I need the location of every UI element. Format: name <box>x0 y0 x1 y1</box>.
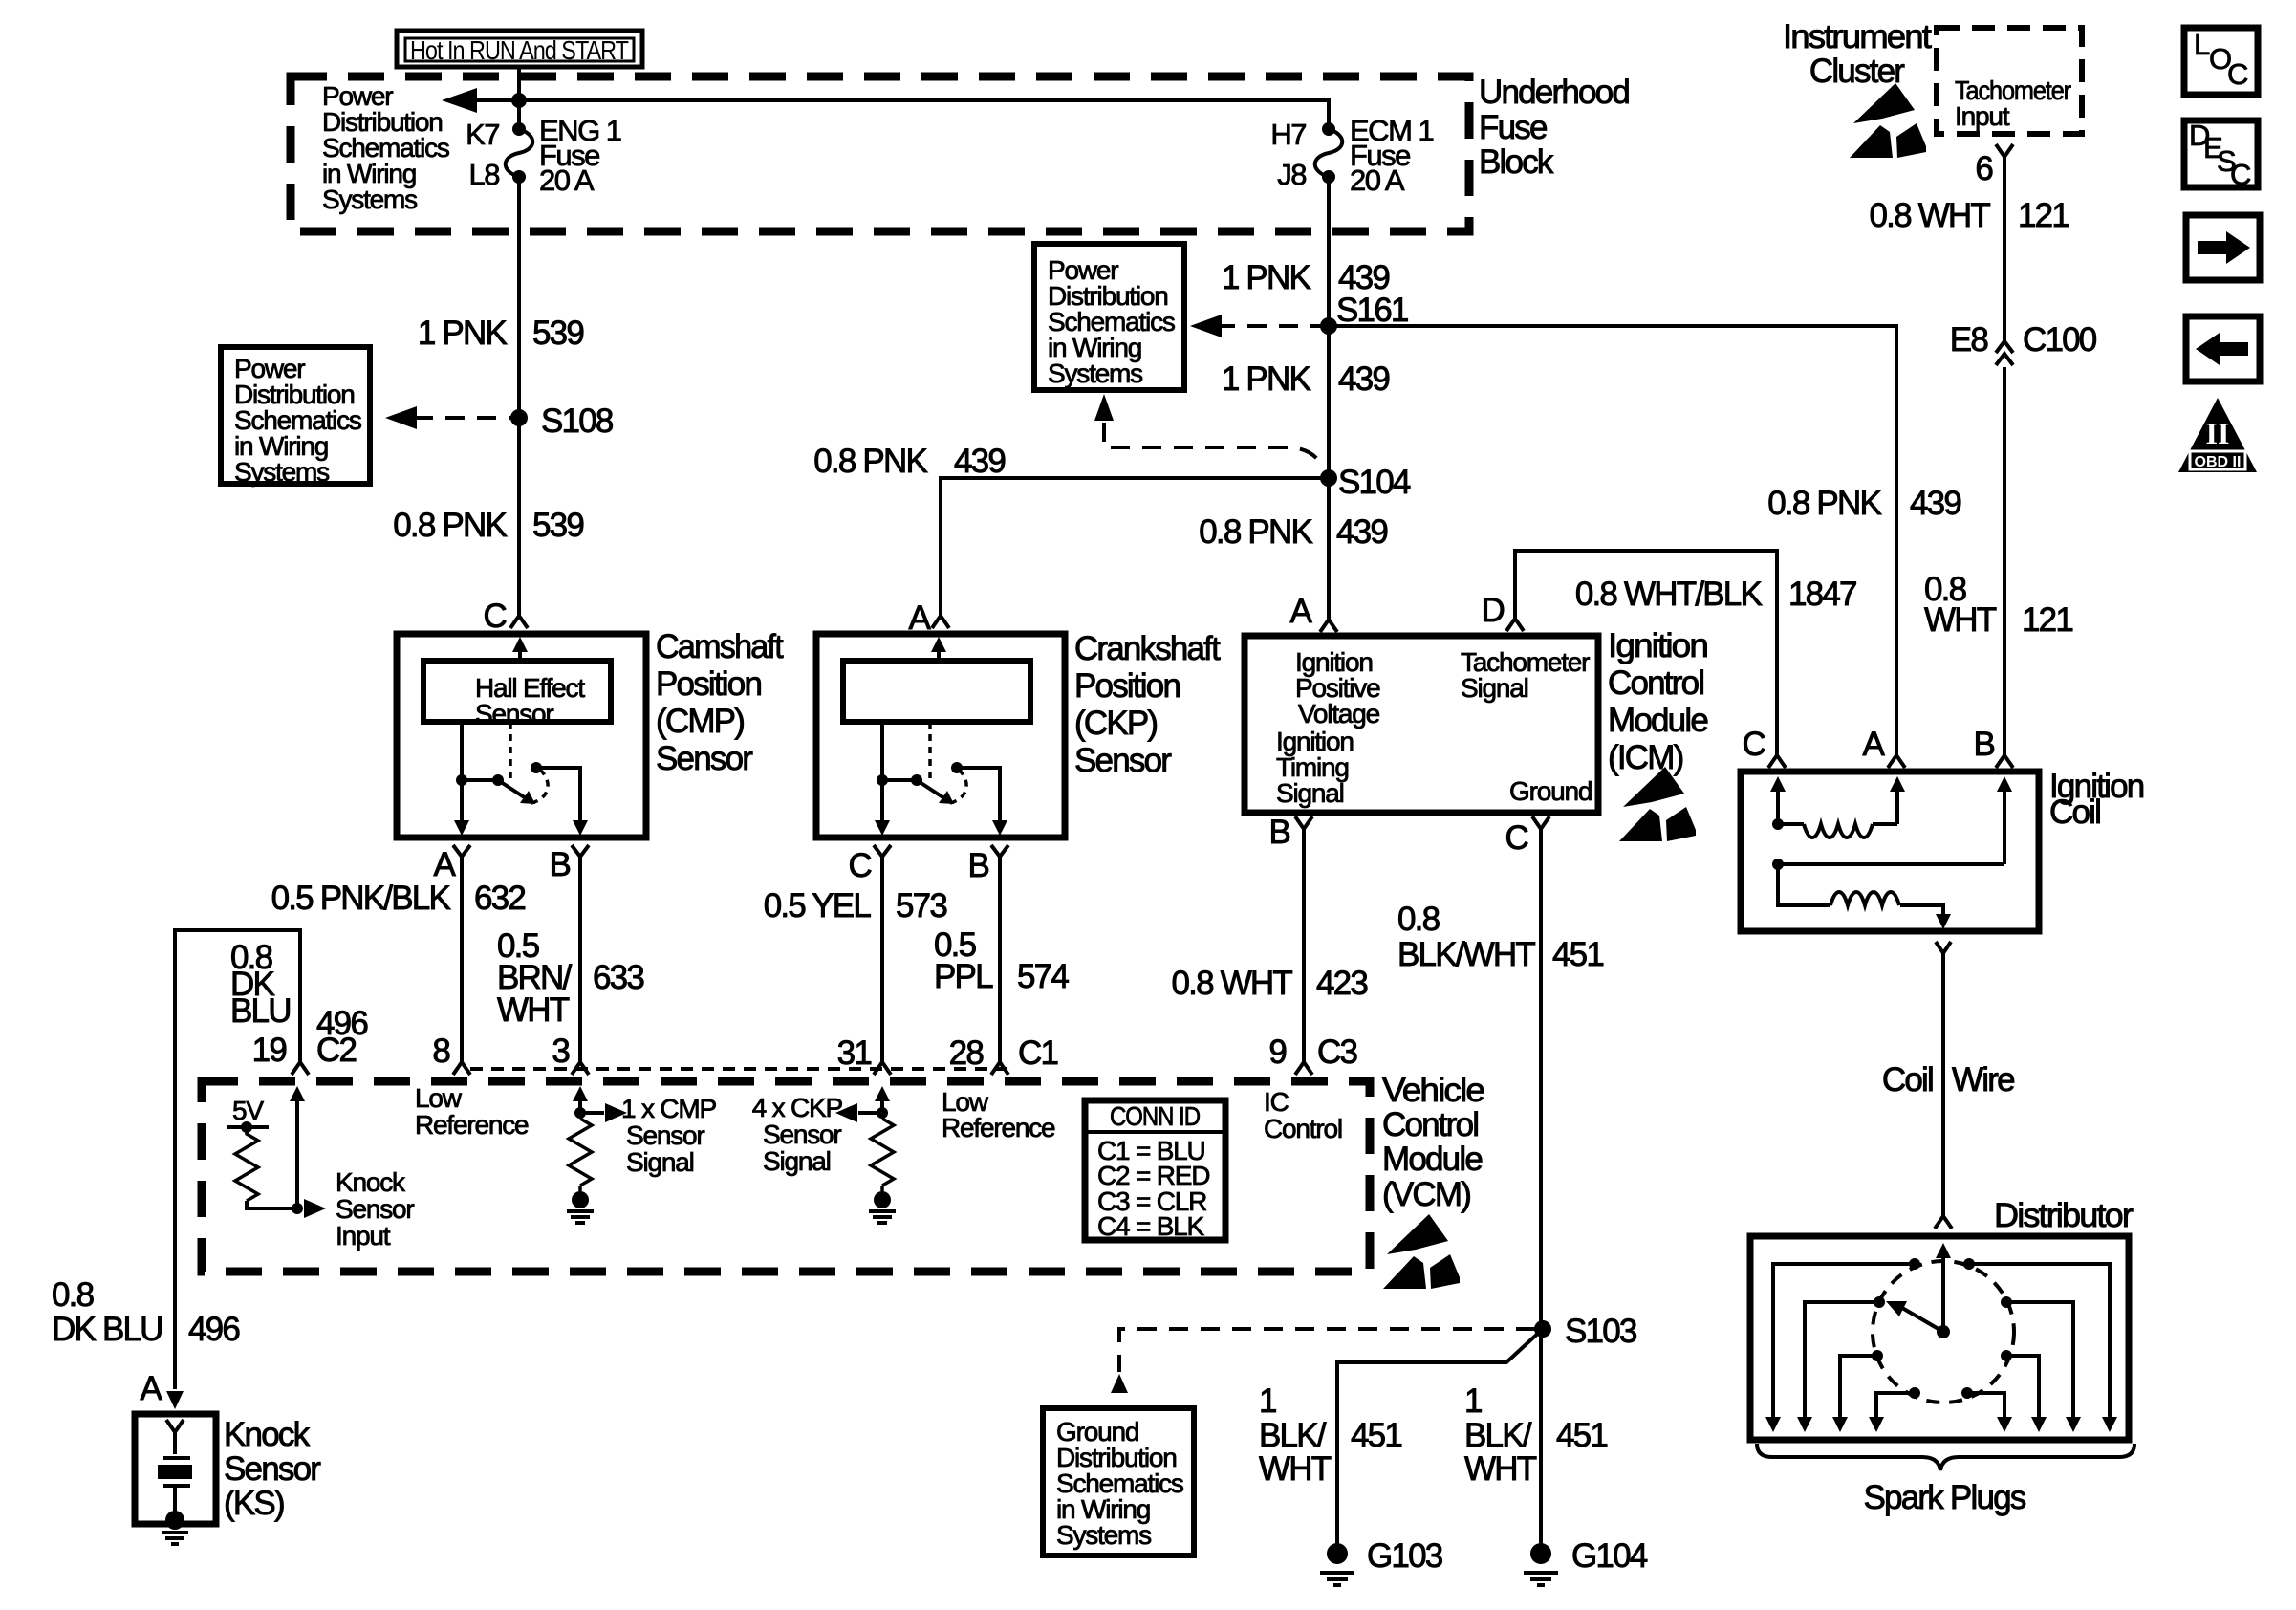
svg-text:539: 539 <box>532 315 583 352</box>
svg-text:(CMP): (CMP) <box>656 703 744 740</box>
connector chevron ICM pin C <box>1532 816 1549 829</box>
symbol box DESC <box>2184 119 2258 191</box>
ground symbol knock sensor <box>162 1533 188 1544</box>
svg-text:0.5 PNK/BLK: 0.5 PNK/BLK <box>271 880 451 917</box>
dashed wire from S103 to ground distribution note <box>1119 1329 1535 1372</box>
svg-text:K7: K7 <box>466 118 499 151</box>
pin 8 <box>432 1033 470 1075</box>
symbol box LOC <box>2184 28 2258 95</box>
label Ignition Control Module (ICM) <box>1608 627 1707 776</box>
svg-text:J8: J8 <box>1277 158 1306 191</box>
svg-text:Coil: Coil <box>2049 794 2100 831</box>
svg-text:Underhood: Underhood <box>1479 74 1629 111</box>
svg-text:Coil: Coil <box>1882 1061 1933 1099</box>
svg-text:H7: H7 <box>1270 118 1306 151</box>
svg-text:A: A <box>433 846 456 883</box>
svg-text:573: 573 <box>896 887 946 925</box>
VCM 5V knock input circuit <box>227 1086 326 1218</box>
label 1 x CMP Sensor Signal <box>621 1094 716 1177</box>
wire ICM pin B down to VCM pin 9 <box>1302 829 1306 1061</box>
splice S108 <box>510 409 528 426</box>
label 0.8 PNK 439 (coil A wire) <box>1767 485 1960 522</box>
svg-text:Low: Low <box>415 1083 463 1113</box>
Ignition Coil box <box>1741 772 2039 931</box>
svg-text:Reference: Reference <box>942 1113 1055 1142</box>
label ECM 1 Fuse 20 A <box>1350 114 1434 197</box>
connector chevron CKP pin B <box>991 845 1008 857</box>
arrow up from Hall box to pin C (inside CMP) <box>518 648 522 661</box>
label 1 BLK/WHT 451 (G104) <box>1464 1382 1607 1488</box>
svg-text:20 A: 20 A <box>539 163 595 197</box>
splice S103 <box>1534 1320 1551 1338</box>
spark plug wires with arrows <box>1765 1264 2117 1432</box>
svg-text:Instrument: Instrument <box>1783 18 1932 55</box>
svg-text:C: C <box>2227 57 2248 91</box>
label 0.5 PNK/BLK 632 <box>271 880 526 917</box>
svg-text:C2: C2 <box>316 1032 356 1069</box>
svg-text:C4 = BLK: C4 = BLK <box>1097 1211 1205 1241</box>
wire C100 down to ignition coil pin B <box>2003 367 2006 755</box>
svg-text:S108: S108 <box>541 402 613 440</box>
CKP internal switch <box>875 722 1007 836</box>
junction dot at ENG1 feed <box>511 93 527 108</box>
svg-text:Position: Position <box>656 665 761 703</box>
connector chevron ICM pin D <box>1506 619 1524 631</box>
svg-text:WHT: WHT <box>497 991 570 1029</box>
svg-text:Sensor: Sensor <box>475 699 553 729</box>
svg-text:Knock: Knock <box>336 1167 406 1197</box>
svg-text:1847: 1847 <box>1788 576 1856 613</box>
svg-text:C3: C3 <box>1317 1033 1356 1071</box>
svg-text:Signal: Signal <box>763 1146 831 1176</box>
ground G103 <box>1320 1537 1442 1585</box>
knock sensor wire up-over to VCM pin 19 <box>175 930 300 1389</box>
svg-text:A: A <box>1862 726 1885 763</box>
connector chevron CMP pin A <box>453 845 470 857</box>
label 0.5 BRN/WHT 633 <box>497 927 643 1029</box>
label Coil Wire <box>1882 1061 2014 1099</box>
svg-text:CONN ID: CONN ID <box>1110 1101 1200 1131</box>
svg-text:G104: G104 <box>1571 1537 1648 1575</box>
svg-text:451: 451 <box>1351 1417 1401 1454</box>
svg-text:Sensor: Sensor <box>1074 742 1172 779</box>
label 0.8 PNK 439 (below S104) <box>1199 513 1387 551</box>
svg-text:C: C <box>1743 726 1765 763</box>
splice S104 <box>1320 469 1337 487</box>
spark plugs brace <box>1757 1444 2134 1470</box>
svg-text:Reference: Reference <box>415 1110 529 1140</box>
svg-text:BLU: BLU <box>230 992 291 1030</box>
svg-text:Input: Input <box>336 1221 391 1251</box>
label 1 PNK 539 <box>418 315 583 352</box>
Underhood Fuse Block dashed box <box>291 76 1469 231</box>
arrow up from inner box to pin A (inside CKP) <box>937 648 941 661</box>
symbol box arrow left <box>2186 316 2260 381</box>
svg-text:C: C <box>2230 158 2251 191</box>
ICM pin names <box>1276 647 1592 808</box>
distributor cap terminals (dots) <box>1872 1258 2012 1399</box>
Ignition Control Module (ICM) box <box>1245 636 1598 813</box>
svg-text:(ICM): (ICM) <box>1608 739 1683 776</box>
VCM 1xCMP sensor signal circuit <box>567 1086 627 1223</box>
pin 9 C3 <box>1268 1033 1356 1075</box>
svg-text:19: 19 <box>252 1032 287 1069</box>
label 0.8 WHT 423 <box>1172 965 1368 1002</box>
svg-text:(KS): (KS) <box>224 1485 284 1522</box>
svg-text:PPL: PPL <box>934 958 993 995</box>
connector chevron CKP pin C <box>874 845 891 857</box>
Crankshaft Position (CKP) Sensor box <box>816 634 1065 838</box>
label Underhood Fuse Block <box>1479 74 1629 181</box>
wire ICM pin D up and over to ignition coil pin C <box>1515 551 1777 755</box>
svg-text:Camshaft: Camshaft <box>656 628 784 665</box>
svg-text:0.8 WHT/BLK: 0.8 WHT/BLK <box>1575 576 1763 613</box>
note box Ground Distribution Schematics <box>1043 1408 1194 1556</box>
svg-text:E8: E8 <box>1950 321 1988 359</box>
svg-text:Sensor: Sensor <box>656 740 753 777</box>
svg-text:Sensor: Sensor <box>224 1450 321 1488</box>
thin dashed connector line C1 <box>470 1067 1007 1071</box>
CONN ID table <box>1085 1100 1225 1241</box>
note box Power Distribution Schematics (left) <box>221 347 370 487</box>
pin 3 <box>552 1033 589 1075</box>
connector chevron tachometer pin 6 <box>1996 144 2013 157</box>
label 0.8 PNK 539 <box>393 507 583 544</box>
svg-text:633: 633 <box>593 959 643 996</box>
svg-text:451: 451 <box>1552 936 1603 973</box>
svg-text:20 A: 20 A <box>1350 163 1405 197</box>
ESD symbol instrument cluster <box>1850 83 1926 158</box>
svg-text:Systems: Systems <box>322 185 417 214</box>
distributor center shaft arrow up <box>1936 1243 1951 1338</box>
label 0.8 PNK 439 (left branch) <box>813 443 1005 480</box>
svg-text:496: 496 <box>188 1311 239 1348</box>
svg-text:0.8 PNK: 0.8 PNK <box>813 443 927 480</box>
svg-text:Sensor: Sensor <box>626 1120 704 1150</box>
svg-text:0.8: 0.8 <box>52 1276 94 1314</box>
coil secondary winding <box>1772 859 2004 929</box>
svg-text:Ground: Ground <box>1509 776 1592 806</box>
svg-text:C: C <box>484 598 507 635</box>
label Ignition Coil <box>2049 768 2144 831</box>
wire S161 branch right to ignition coil pin A <box>1329 326 1896 755</box>
svg-text:31: 31 <box>837 1034 872 1072</box>
label 0.8 BLK/WHT 451 <box>1397 901 1603 973</box>
svg-text:L: L <box>2194 28 2210 61</box>
label ENG 1 Fuse 20 A <box>539 114 621 197</box>
svg-text:Signal: Signal <box>626 1147 694 1177</box>
pin 28 <box>949 1034 1008 1075</box>
fuse ENG 1 20 A <box>506 122 533 184</box>
svg-text:Sensor: Sensor <box>336 1194 414 1224</box>
wire tachometer input down to C100 <box>2003 157 2006 340</box>
svg-text:1 PNK: 1 PNK <box>1222 360 1311 398</box>
svg-text:Voltage: Voltage <box>1298 699 1380 729</box>
svg-text:121: 121 <box>2018 197 2069 234</box>
label 0.5 PPL 574 <box>934 926 1069 995</box>
svg-text:9: 9 <box>1268 1033 1286 1071</box>
svg-text:Ignition: Ignition <box>1608 627 1707 664</box>
svg-text:B: B <box>1268 814 1289 851</box>
power source box "Hot In RUN And START" <box>397 31 642 67</box>
svg-text:BLK/: BLK/ <box>1464 1417 1532 1454</box>
VCM 4xCKP sensor signal circuit <box>835 1086 896 1223</box>
svg-text:Control: Control <box>1382 1106 1478 1143</box>
svg-text:Systems: Systems <box>1048 359 1142 388</box>
connector chevron coil pin A <box>1888 755 1905 768</box>
svg-text:632: 632 <box>474 880 525 917</box>
svg-text:Hot In RUN And START: Hot In RUN And START <box>410 35 629 65</box>
svg-text:Fuse: Fuse <box>1479 109 1547 146</box>
label 4 x CKP Sensor Signal <box>752 1093 843 1176</box>
svg-text:1: 1 <box>1464 1382 1482 1420</box>
distributor rotor circle (dashed) <box>1873 1261 2014 1403</box>
svg-text:Wire: Wire <box>1952 1061 2014 1099</box>
svg-text:574: 574 <box>1017 958 1069 995</box>
label 1 BLK/WHT 451 (G103) <box>1259 1382 1401 1488</box>
svg-text:451: 451 <box>1556 1417 1607 1454</box>
svg-text:Signal: Signal <box>1276 778 1344 808</box>
svg-text:Module: Module <box>1382 1141 1482 1178</box>
label Knock Sensor (KS) <box>224 1416 321 1522</box>
svg-text:Systems: Systems <box>234 457 329 487</box>
svg-text:Sensor: Sensor <box>763 1120 841 1149</box>
svg-text:Position: Position <box>1074 667 1180 705</box>
label 0.8 WHT/BLK 1847 <box>1575 576 1856 613</box>
svg-text:C1: C1 <box>1018 1034 1057 1072</box>
svg-text:423: 423 <box>1316 965 1367 1002</box>
svg-text:0.8 WHT: 0.8 WHT <box>1870 197 1991 234</box>
svg-text:BLK/WHT: BLK/WHT <box>1397 936 1535 973</box>
svg-text:B: B <box>967 847 988 884</box>
svg-text:1 PNK: 1 PNK <box>418 315 508 352</box>
label Low Reference (left) <box>415 1083 529 1140</box>
svg-text:C: C <box>849 847 872 884</box>
svg-text:28: 28 <box>949 1034 984 1072</box>
svg-text:121: 121 <box>2022 601 2072 639</box>
svg-text:0.8 PNK: 0.8 PNK <box>393 507 507 544</box>
svg-text:1: 1 <box>1259 1382 1276 1420</box>
svg-text:D: D <box>1482 592 1505 629</box>
svg-text:Module: Module <box>1608 702 1707 739</box>
note box Power Distribution Schematics (middle) <box>1034 244 1184 390</box>
label 1 PNK 439 (below S161) <box>1222 360 1389 398</box>
label Low Reference (right) <box>942 1087 1055 1142</box>
dashed arrow up into middle note box from S104 <box>1094 394 1114 421</box>
svg-text:Cluster: Cluster <box>1809 53 1905 90</box>
connector chevron CMP pin B <box>572 845 589 857</box>
svg-text:3: 3 <box>552 1033 569 1070</box>
svg-text:Systems: Systems <box>1056 1520 1151 1550</box>
svg-text:C: C <box>1505 819 1528 857</box>
CKP inner element box <box>843 661 1030 722</box>
label Camshaft Position (CMP) Sensor <box>656 628 784 777</box>
svg-text:Distributor: Distributor <box>1994 1197 2134 1234</box>
symbol OBD II triangle <box>2178 398 2257 472</box>
arrow left (power distribution off-page) <box>442 88 477 113</box>
svg-text:6: 6 <box>1975 150 1992 187</box>
ESD symbol ICM <box>1619 767 1696 841</box>
connector C100 pin E8 (double chevron) <box>1950 321 2097 365</box>
connector chevron CMP pin C <box>510 616 528 628</box>
svg-text:WHT: WHT <box>1259 1450 1332 1488</box>
Distributor box <box>1750 1236 2129 1440</box>
svg-text:Knock: Knock <box>224 1416 311 1453</box>
svg-text:0.5 YEL: 0.5 YEL <box>764 887 872 925</box>
wire ENG1 fuse down to CMP sensor pin C <box>517 177 521 615</box>
distributor rotor arm arrow <box>1886 1301 1943 1332</box>
svg-text:0.8 WHT: 0.8 WHT <box>1172 965 1293 1002</box>
svg-text:539: 539 <box>532 507 583 544</box>
label 0.8 DK BLU 496 (vertical stack) <box>230 939 367 1042</box>
svg-text:0.8 PNK: 0.8 PNK <box>1199 513 1312 551</box>
svg-text:439: 439 <box>954 443 1005 480</box>
connector chevron ICM pin B <box>1295 816 1312 829</box>
CMP internal switch <box>454 722 588 836</box>
label Crankshaft Position (CKP) Sensor <box>1074 630 1221 779</box>
svg-text:DK BLU: DK BLU <box>52 1311 162 1348</box>
svg-text:1 PNK: 1 PNK <box>1222 259 1311 296</box>
svg-text:0.8 PNK: 0.8 PNK <box>1767 485 1881 522</box>
label 0.8 DK BLU 496 (lower) <box>52 1276 239 1348</box>
label 0.5 YEL 573 <box>764 887 947 925</box>
dashed arrow from S108 to power distribution note <box>414 416 511 420</box>
label 0.8 WHT 121 (upper) <box>1870 197 2069 234</box>
svg-text:(CKP): (CKP) <box>1074 705 1157 742</box>
connector chevron coil pin B <box>1996 755 2013 768</box>
label Knock Sensor Input <box>336 1167 414 1251</box>
svg-text:WHT: WHT <box>1464 1450 1537 1488</box>
label Instrument Cluster <box>1783 18 1932 90</box>
wire ECM1 fuse down through S161 and S104 to ICM pin A <box>1327 177 1331 620</box>
svg-text:S104: S104 <box>1338 464 1411 501</box>
svg-text:Control: Control <box>1608 664 1703 702</box>
svg-text:Control: Control <box>1264 1114 1342 1143</box>
label 0.8 WHT 121 (lower) <box>1924 571 2072 639</box>
svg-text:4 x CKP: 4 x CKP <box>752 1093 843 1122</box>
Vehicle Control Module (VCM) dashed box <box>202 1081 1370 1272</box>
connector chevron coil pin C <box>1768 755 1786 768</box>
Tachometer Input dashed box <box>1937 28 2082 134</box>
svg-text:L8: L8 <box>469 158 500 191</box>
connector chevron CKP pin A <box>932 616 949 628</box>
label Vehicle Control Module (VCM) <box>1382 1072 1484 1213</box>
knock sensor element <box>158 1420 192 1530</box>
svg-text:439: 439 <box>1336 513 1387 551</box>
svg-text:1 x CMP: 1 x CMP <box>621 1094 716 1123</box>
svg-text:S103: S103 <box>1565 1313 1636 1350</box>
svg-text:B: B <box>549 846 570 883</box>
note Power Distribution Schematics in Wiring Systems (in fuse block) <box>322 81 449 214</box>
svg-text:WHT: WHT <box>1924 601 1997 639</box>
svg-text:439: 439 <box>1338 360 1389 398</box>
svg-text:A: A <box>140 1370 162 1407</box>
splice S161 <box>1320 317 1337 335</box>
svg-text:Vehicle: Vehicle <box>1382 1072 1484 1109</box>
ESD symbol VCM <box>1383 1214 1460 1289</box>
label 1 PNK 439 (above S161) <box>1222 259 1389 296</box>
svg-text:IC: IC <box>1264 1087 1289 1117</box>
svg-text:II: II <box>2206 416 2230 450</box>
svg-text:Spark Plugs: Spark Plugs <box>1864 1479 2026 1516</box>
wire S103 branch to G103 <box>1337 1329 1543 1554</box>
svg-text:(VCM): (VCM) <box>1382 1176 1470 1213</box>
svg-text:0.8: 0.8 <box>1397 901 1440 938</box>
svg-text:A: A <box>1289 593 1312 630</box>
svg-text:Block: Block <box>1479 143 1554 181</box>
arrow into knock sensor <box>166 1391 184 1409</box>
ground G104 <box>1524 1537 1648 1585</box>
svg-text:8: 8 <box>432 1033 449 1070</box>
pin 19 C2 <box>252 1032 357 1075</box>
connector chevron distributor input <box>1935 1216 1952 1229</box>
coil primary winding <box>1772 818 1897 838</box>
svg-text:Crankshaft: Crankshaft <box>1074 630 1221 667</box>
connector chevron coil output <box>1936 942 1951 953</box>
connector chevron ICM pin A <box>1320 620 1337 632</box>
svg-text:B: B <box>1973 726 1994 763</box>
svg-text:Signal: Signal <box>1461 673 1528 703</box>
svg-text:OBD II: OBD II <box>2195 454 2242 470</box>
wire from Hot In RUN down to ENG 1 fuse <box>517 67 521 129</box>
pin 31 <box>837 1034 891 1075</box>
dashed arrow from S161 to power distribution note (middle) <box>1216 324 1321 328</box>
Hall Effect Sensor inner box <box>423 661 611 729</box>
Knock Sensor (KS) box <box>135 1414 216 1524</box>
svg-text:G103: G103 <box>1367 1537 1442 1575</box>
svg-text:439: 439 <box>1910 485 1960 522</box>
coil internal arrows at pins <box>1770 776 2012 864</box>
fuse ECM 1 20 A <box>1315 122 1343 184</box>
wire ICM pin C (ground) down to G104 <box>1539 829 1543 1554</box>
symbol box arrow right <box>2186 215 2260 280</box>
wire coil output down to distributor <box>1941 953 1945 1216</box>
svg-text:5V: 5V <box>232 1096 264 1125</box>
svg-text:C100: C100 <box>2023 321 2097 359</box>
Camshaft Position (CMP) Sensor box <box>397 634 646 838</box>
wire S104 branch left to CKP pin A <box>941 478 1329 615</box>
svg-text:BLK/: BLK/ <box>1259 1417 1327 1454</box>
svg-text:Input: Input <box>1955 101 2010 131</box>
label IC Control <box>1264 1087 1342 1143</box>
arrow to ground distribution note <box>1111 1374 1128 1393</box>
svg-text:S161: S161 <box>1336 292 1408 329</box>
wire horizontal feed to ECM 1 fuse <box>475 100 1329 129</box>
